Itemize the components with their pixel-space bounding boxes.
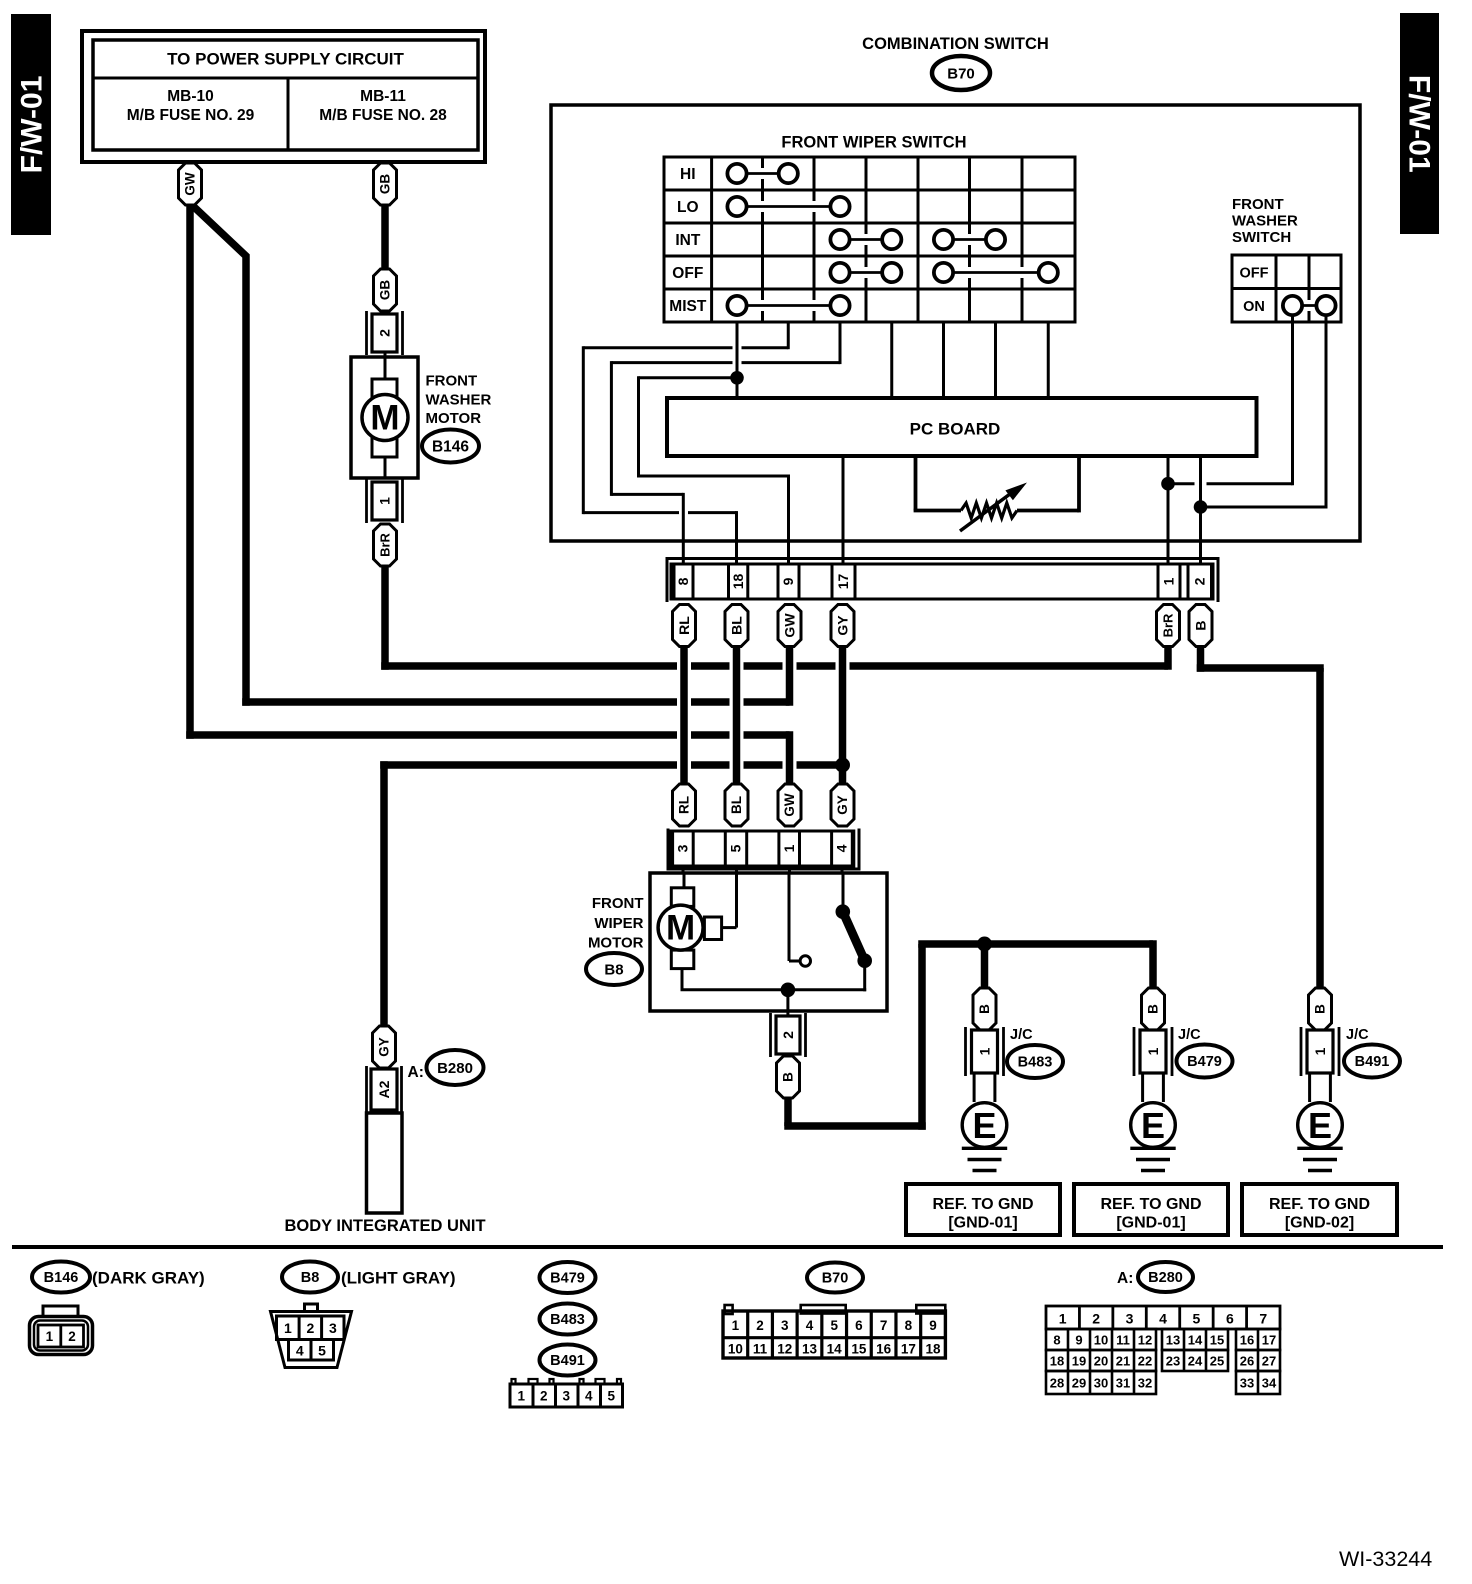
svg-text:MB-11: MB-11 — [360, 88, 406, 105]
svg-text:A:: A: — [408, 1064, 424, 1081]
svg-text:E: E — [1141, 1105, 1165, 1146]
svg-text:5: 5 — [318, 1343, 326, 1359]
svg-text:1: 1 — [517, 1389, 525, 1404]
svg-text:BrR: BrR — [378, 532, 393, 556]
svg-text:BODY INTEGRATED UNIT: BODY INTEGRATED UNIT — [284, 1217, 485, 1235]
wire washer switch contact 2 to pin-2 node — [1201, 315, 1327, 509]
svg-text:RL: RL — [676, 616, 692, 635]
svg-text:A2: A2 — [376, 1080, 392, 1098]
svg-text:B280: B280 — [1148, 1270, 1183, 1286]
svg-text:B483: B483 — [1018, 1055, 1053, 1071]
svg-text:11: 11 — [753, 1342, 768, 1357]
svg-text:FRONT: FRONT — [426, 373, 478, 390]
svg-text:17: 17 — [901, 1342, 916, 1357]
joint connector B479 with ground E — [1130, 988, 1175, 1171]
svg-text:B479: B479 — [550, 1271, 585, 1287]
svg-text:4: 4 — [1159, 1311, 1167, 1327]
wire PC board to pin 2 with node — [1194, 456, 1208, 564]
svg-text:21: 21 — [1116, 1353, 1130, 1368]
svg-text:J/C: J/C — [1178, 1027, 1201, 1043]
wire switch col5 to PC board — [942, 322, 945, 398]
wire label B at wiper motor — [777, 1056, 800, 1098]
wire label B upper — [1189, 605, 1212, 647]
svg-text:A:: A: — [1117, 1270, 1133, 1287]
wire label GY lower — [831, 784, 854, 826]
svg-text:8: 8 — [675, 577, 691, 585]
svg-text:J/C: J/C — [1346, 1027, 1369, 1043]
ref to gnd box 2 — [1074, 1184, 1228, 1235]
wire label BL upper — [725, 605, 748, 647]
svg-text:1: 1 — [1059, 1311, 1067, 1327]
wire label GY upper — [831, 605, 854, 647]
svg-text:FRONT: FRONT — [592, 895, 644, 912]
wire col1 node to pin 9 (staircase) — [639, 376, 789, 564]
pin A2 of body integrated unit — [367, 1066, 402, 1113]
svg-text:9: 9 — [929, 1318, 937, 1333]
svg-text:14: 14 — [827, 1342, 843, 1357]
svg-text:SWITCH: SWITCH — [1232, 229, 1291, 246]
wire GW diagonal feed — [193, 206, 790, 706]
svg-text:B280: B280 — [437, 1060, 473, 1077]
wiper motor M armature — [658, 873, 736, 969]
svg-text:E: E — [1308, 1105, 1332, 1146]
svg-text:2: 2 — [540, 1389, 548, 1404]
svg-text:11: 11 — [1116, 1332, 1130, 1347]
svg-text:34: 34 — [1262, 1375, 1277, 1390]
wire B to joint connector B491 — [1197, 645, 1324, 990]
label FRONT WASHER SWITCH — [1232, 196, 1298, 246]
svg-text:OFF: OFF — [672, 265, 703, 282]
svg-text:B: B — [781, 1072, 796, 1082]
svg-text:LO: LO — [677, 199, 699, 216]
connector GB at washer motor — [374, 269, 397, 311]
ref to gnd box 1 — [906, 1184, 1060, 1235]
svg-text:15: 15 — [851, 1342, 867, 1357]
svg-text:GW: GW — [183, 172, 198, 196]
svg-text:33: 33 — [1240, 1375, 1254, 1390]
wire BL — [733, 645, 741, 786]
wire col2 to pin 18 (staircase) — [583, 322, 788, 564]
svg-text:5: 5 — [1193, 1311, 1201, 1327]
svg-text:F/W-01: F/W-01 — [16, 76, 49, 174]
connector oval B70 — [932, 56, 990, 90]
svg-text:2: 2 — [68, 1329, 76, 1344]
legend separator line — [12, 1245, 1443, 1249]
svg-text:27: 27 — [1262, 1353, 1276, 1368]
wiper switch contacts INT — [830, 230, 1005, 249]
svg-text:4: 4 — [585, 1389, 593, 1404]
svg-text:MOTOR: MOTOR — [588, 935, 644, 952]
legend oval B491 — [540, 1345, 596, 1376]
svg-text:30: 30 — [1094, 1375, 1108, 1390]
svg-text:25: 25 — [1210, 1353, 1224, 1368]
svg-text:22: 22 — [1138, 1353, 1152, 1368]
svg-text:28: 28 — [1050, 1375, 1064, 1390]
svg-text:16: 16 — [1240, 1332, 1254, 1347]
combination switch box — [551, 105, 1360, 541]
svg-text:12: 12 — [1138, 1332, 1152, 1347]
svg-text:B: B — [1313, 1004, 1328, 1014]
svg-text:WASHER: WASHER — [426, 392, 492, 409]
label FRONT WASHER MOTOR — [426, 373, 492, 428]
wire GB — [381, 205, 389, 271]
svg-text:[GND-01]: [GND-01] — [1116, 1215, 1185, 1232]
svg-text:BrR: BrR — [1161, 613, 1176, 637]
wiper motor internal ground wire — [681, 969, 867, 1016]
wire GY branch to body integrated unit — [380, 761, 839, 1028]
connector oval B8 — [586, 953, 642, 985]
svg-text:5: 5 — [607, 1389, 615, 1404]
svg-text:B146: B146 — [432, 438, 469, 455]
svg-text:1: 1 — [976, 1047, 992, 1055]
svg-text:23: 23 — [1166, 1353, 1180, 1368]
wire switch col1 to PC board with node — [730, 322, 744, 398]
svg-text:[GND-01]: [GND-01] — [948, 1215, 1017, 1232]
svg-text:3: 3 — [781, 1318, 789, 1333]
svg-text:GB: GB — [378, 280, 393, 301]
svg-text:26: 26 — [1240, 1353, 1254, 1368]
right page tab F/W-01 — [1400, 13, 1439, 234]
connector GW (fuse MB-10 output) — [179, 163, 202, 205]
svg-text:6: 6 — [1226, 1311, 1234, 1327]
legend label A: B280 — [1117, 1262, 1193, 1292]
svg-text:13: 13 — [1166, 1332, 1180, 1347]
svg-text:2: 2 — [1191, 577, 1207, 585]
svg-text:B491: B491 — [550, 1353, 585, 1369]
svg-text:B: B — [977, 1004, 992, 1014]
svg-text:COMBINATION SWITCH: COMBINATION SWITCH — [862, 35, 1049, 53]
svg-text:32: 32 — [1138, 1375, 1152, 1390]
svg-text:WIPER: WIPER — [594, 915, 643, 932]
front wiper motor box — [650, 873, 887, 1011]
svg-text:BL: BL — [728, 616, 744, 635]
svg-text:18: 18 — [730, 574, 746, 590]
legend oval B479 — [540, 1262, 596, 1293]
svg-text:15: 15 — [1210, 1332, 1224, 1347]
svg-text:WASHER: WASHER — [1232, 213, 1298, 230]
svg-text:B479: B479 — [1187, 1054, 1222, 1070]
svg-text:1: 1 — [1312, 1047, 1328, 1055]
svg-text:INT: INT — [675, 232, 701, 249]
svg-text:MB-10: MB-10 — [167, 88, 214, 105]
svg-text:B146: B146 — [44, 1270, 79, 1286]
svg-text:M: M — [370, 399, 399, 438]
svg-text:GW: GW — [782, 793, 797, 817]
front wiper motor connector strip (B8) — [667, 829, 861, 874]
svg-text:17: 17 — [1262, 1332, 1276, 1347]
legend oval B146 — [32, 1262, 90, 1293]
svg-text:3: 3 — [675, 844, 691, 852]
svg-text:24: 24 — [1188, 1353, 1203, 1368]
svg-text:HI: HI — [680, 166, 696, 183]
svg-text:REF. TO GND: REF. TO GND — [932, 1196, 1033, 1213]
joint connector B483 with ground E — [962, 988, 1007, 1171]
svg-text:1: 1 — [1145, 1047, 1161, 1055]
svg-text:2: 2 — [780, 1031, 796, 1039]
legend connector icon 5-pin — [510, 1379, 623, 1407]
svg-text:FRONT WIPER SWITCH: FRONT WIPER SWITCH — [781, 134, 966, 152]
svg-text:17: 17 — [835, 574, 851, 590]
legend oval B483 — [540, 1304, 596, 1335]
wire washer switch contact 1 to pin-1 node — [1168, 315, 1293, 485]
power supply box — [82, 31, 485, 162]
svg-text:29: 29 — [1072, 1375, 1086, 1390]
svg-text:M: M — [666, 909, 695, 948]
svg-text:REF. TO GND: REF. TO GND — [1100, 1196, 1201, 1213]
svg-text:18: 18 — [926, 1342, 942, 1357]
svg-text:10: 10 — [1094, 1332, 1108, 1347]
wiper motor park switch arm — [836, 873, 873, 991]
svg-text:B483: B483 — [550, 1312, 585, 1328]
front wiper switch contact table — [664, 157, 1075, 322]
svg-text:3: 3 — [562, 1389, 570, 1404]
svg-text:2: 2 — [756, 1318, 764, 1333]
wire label RL upper — [673, 605, 696, 647]
svg-text:WI-33244: WI-33244 — [1339, 1547, 1432, 1571]
svg-text:B70: B70 — [947, 65, 975, 82]
svg-text:2: 2 — [376, 329, 392, 337]
wiper motor park contact — [789, 873, 811, 966]
wiper switch contacts LO — [727, 197, 849, 216]
label J/C B479 — [1177, 1027, 1233, 1078]
svg-text:9: 9 — [1075, 1332, 1082, 1347]
svg-text:GW: GW — [781, 613, 797, 638]
svg-text:RL: RL — [677, 796, 692, 814]
joint connector B491 with ground E — [1297, 988, 1342, 1171]
wire wiper motor ground bus — [784, 937, 1153, 1130]
svg-text:OFF: OFF — [1240, 266, 1269, 282]
svg-text:TO POWER SUPPLY CIRCUIT: TO POWER SUPPLY CIRCUIT — [167, 50, 404, 69]
svg-text:B: B — [1146, 1004, 1161, 1014]
svg-text:B491: B491 — [1355, 1054, 1390, 1070]
svg-text:GY: GY — [834, 615, 850, 636]
svg-text:8: 8 — [905, 1318, 913, 1333]
wiper switch contacts MIST — [727, 296, 849, 315]
svg-text:20: 20 — [1094, 1353, 1108, 1368]
wire label BL lower — [725, 784, 748, 826]
svg-text:3: 3 — [329, 1320, 337, 1336]
svg-text:FRONT: FRONT — [1232, 196, 1284, 213]
svg-text:4: 4 — [806, 1318, 814, 1333]
front washer motor B146 — [351, 357, 418, 478]
wiper switch contacts HI — [727, 164, 797, 183]
svg-text:13: 13 — [802, 1342, 818, 1357]
wire GW straight feed — [186, 205, 789, 785]
svg-text:E: E — [972, 1105, 996, 1146]
svg-text:M/B FUSE NO. 28: M/B FUSE NO. 28 — [319, 107, 447, 124]
wire switch col4 to PC board — [890, 322, 893, 398]
svg-text:1: 1 — [1161, 577, 1177, 585]
left page tab F/W-01 — [11, 14, 51, 235]
connector BrR below washer motor — [374, 524, 397, 566]
wire switch col7 to PC board — [1047, 322, 1050, 398]
wire switch col6 to PC board — [994, 322, 997, 398]
wire BrR ground bus — [381, 566, 1168, 670]
wire label GW lower — [778, 784, 801, 826]
svg-text:MIST: MIST — [669, 298, 707, 315]
svg-text:3: 3 — [1126, 1311, 1134, 1327]
svg-text:4: 4 — [834, 844, 850, 852]
svg-text:J/C: J/C — [1010, 1027, 1033, 1043]
svg-text:1: 1 — [376, 497, 392, 505]
wire RL — [680, 645, 688, 786]
wire label GW upper — [778, 605, 801, 647]
label A: B280 — [408, 1050, 484, 1085]
svg-text:MOTOR: MOTOR — [426, 410, 482, 427]
wire col3 to pin 8 (staircase) — [611, 322, 840, 564]
connector GB (fuse MB-11 output) — [374, 163, 397, 205]
wire label GY at body unit — [373, 1026, 396, 1068]
svg-text:B70: B70 — [822, 1271, 849, 1287]
svg-text:[GND-02]: [GND-02] — [1285, 1215, 1354, 1232]
svg-text:14: 14 — [1188, 1332, 1203, 1347]
legend connector icon B146 — [30, 1306, 93, 1355]
svg-text:7: 7 — [880, 1318, 888, 1333]
svg-text:PC BOARD: PC BOARD — [910, 420, 1001, 439]
pin 1 of washer motor — [367, 479, 403, 523]
svg-text:1: 1 — [732, 1318, 740, 1333]
svg-text:(DARK GRAY): (DARK GRAY) — [92, 1269, 205, 1288]
svg-text:7: 7 — [1259, 1311, 1267, 1327]
svg-text:10: 10 — [728, 1342, 743, 1357]
connector oval B146 — [422, 430, 479, 463]
svg-text:(LIGHT GRAY): (LIGHT GRAY) — [341, 1269, 456, 1288]
wire label BrR upper — [1157, 605, 1180, 647]
legend oval B70 — [807, 1263, 863, 1293]
svg-text:12: 12 — [777, 1342, 792, 1357]
svg-text:6: 6 — [855, 1318, 863, 1333]
label FRONT WIPER MOTOR — [588, 895, 644, 952]
front washer switch contact table — [1232, 255, 1341, 322]
svg-text:19: 19 — [1072, 1353, 1086, 1368]
svg-text:9: 9 — [780, 577, 796, 585]
body integrated unit box — [367, 1113, 403, 1213]
legend connector icon B70 — [723, 1305, 945, 1358]
svg-text:2: 2 — [1092, 1311, 1100, 1327]
svg-text:2: 2 — [307, 1320, 315, 1336]
svg-text:1: 1 — [46, 1329, 54, 1344]
wiper switch contacts OFF — [830, 263, 1057, 282]
ref to gnd box 3 — [1242, 1184, 1397, 1235]
svg-text:M/B FUSE NO. 29: M/B FUSE NO. 29 — [127, 107, 255, 124]
wire into washer motor — [384, 352, 387, 360]
svg-text:BL: BL — [729, 796, 744, 814]
svg-text:B8: B8 — [604, 961, 623, 978]
svg-text:GB: GB — [378, 174, 393, 195]
svg-text:16: 16 — [876, 1342, 892, 1357]
svg-text:1: 1 — [284, 1320, 292, 1336]
svg-text:B8: B8 — [301, 1270, 320, 1286]
wire PC board to pin 17 — [842, 456, 845, 564]
svg-text:REF. TO GND: REF. TO GND — [1269, 1196, 1370, 1213]
legend connector icon B8 — [271, 1304, 352, 1368]
svg-text:4: 4 — [296, 1343, 304, 1359]
wire GY with node — [835, 645, 850, 786]
legend connector grid B280 — [1046, 1306, 1280, 1394]
svg-text:GY: GY — [377, 1037, 392, 1057]
svg-text:GY: GY — [835, 795, 850, 815]
label J/C B483 — [1007, 1027, 1063, 1078]
combination switch connector strip (B70) — [667, 559, 1218, 603]
svg-text:5: 5 — [830, 1318, 838, 1333]
svg-text:F/W-01: F/W-01 — [1402, 75, 1435, 173]
svg-text:1: 1 — [781, 844, 797, 852]
svg-text:31: 31 — [1116, 1375, 1130, 1390]
pin 2 of wiper motor — [771, 1013, 806, 1057]
wire PC board to pin 1 with node — [1161, 456, 1175, 564]
pin 2 of washer motor — [367, 311, 403, 355]
svg-text:ON: ON — [1243, 299, 1265, 315]
svg-text:8: 8 — [1053, 1332, 1060, 1347]
PC board — [667, 398, 1257, 456]
svg-text:5: 5 — [728, 844, 744, 852]
svg-text:18: 18 — [1050, 1353, 1064, 1368]
variable resistor on PC board — [914, 456, 1079, 531]
svg-text:B: B — [1192, 620, 1208, 630]
label J/C B491 — [1344, 1027, 1400, 1078]
legend oval B8 — [282, 1262, 338, 1293]
wire label RL lower — [673, 784, 696, 826]
